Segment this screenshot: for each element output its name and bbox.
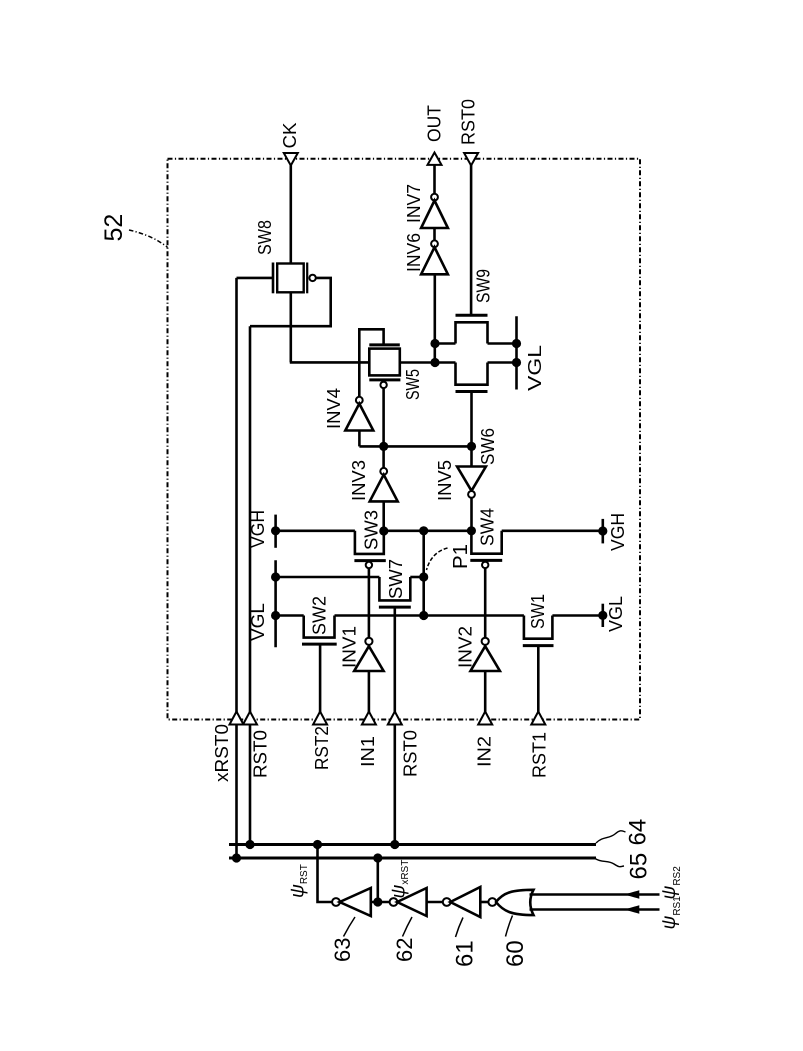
svg-text:VGL: VGL	[525, 345, 545, 391]
svg-text:RST0: RST0	[459, 99, 479, 145]
wire node1 left	[276, 529, 355, 532]
VGL rail right	[601, 604, 604, 627]
wire cross right arm bottom	[488, 361, 517, 364]
node dot cross right top	[512, 339, 521, 348]
node dot cross right bottom	[512, 358, 521, 367]
wire bus 65	[229, 857, 596, 860]
svg-text:52: 52	[100, 214, 128, 242]
nor gate 60	[488, 890, 533, 915]
arrowhead psiRS2	[624, 890, 639, 899]
svg-text:xRST0: xRST0	[212, 724, 232, 782]
svg-text:RST0: RST0	[401, 730, 421, 777]
wire bus 64	[229, 843, 596, 846]
terminal RST0 left	[243, 712, 257, 725]
inverter INV4	[324, 388, 373, 431]
svg-text:RST2: RST2	[312, 726, 332, 770]
leader 61	[456, 918, 464, 938]
wire cross left arm top	[435, 342, 456, 345]
wire CK	[289, 164, 292, 264]
svg-text:SW9: SW9	[474, 269, 494, 303]
node dot RST0-bus64	[245, 840, 254, 849]
node dot P1 top	[419, 526, 428, 535]
switch SW4	[470, 508, 502, 568]
wire RST0 vertical	[249, 326, 252, 844]
svg-text:CK: CK	[280, 123, 300, 149]
svg-text:INV6: INV6	[404, 233, 424, 272]
svg-text:61: 61	[452, 940, 479, 967]
inverter INV5	[435, 460, 486, 501]
leader 60	[506, 916, 513, 937]
wire INV7-INV6	[433, 228, 436, 240]
wire nor input psiRS1	[530, 908, 660, 911]
svg-text:SW8: SW8	[255, 220, 275, 255]
terminal xRST0	[230, 712, 244, 725]
svg-text:SW4: SW4	[478, 508, 498, 546]
wire SW2 gate stub	[319, 644, 322, 713]
terminal IN2	[478, 712, 492, 725]
switch SW8	[255, 220, 316, 293]
wire INV5 output	[470, 498, 473, 531]
svg-text:INV5: INV5	[435, 460, 455, 501]
node dot VGL-row line	[271, 611, 280, 620]
wire node1 mid	[384, 529, 472, 532]
node dot cross left bottom	[430, 358, 439, 367]
inverter 62	[390, 888, 427, 916]
svg-text:RST0: RST0	[251, 730, 271, 778]
terminal OUT	[428, 153, 442, 165]
wire SW7 gate to RST0	[393, 607, 396, 844]
svg-text:SW2: SW2	[310, 596, 330, 635]
svg-text:INV4: INV4	[324, 388, 344, 429]
inverter INV6	[404, 233, 448, 274]
wire SW5 output to cross	[400, 361, 456, 364]
node dot SW3-INV3	[379, 526, 388, 535]
svg-text:RST1: RST1	[530, 732, 550, 778]
svg-text:INV7: INV7	[404, 184, 424, 223]
svg-text:INV3: INV3	[349, 460, 369, 501]
svg-text:OUT: OUT	[425, 105, 445, 142]
inverter 61	[443, 887, 480, 917]
svg-text:VGL: VGL	[606, 596, 626, 632]
leader 64	[596, 831, 626, 843]
node dot psixRST-bus65	[373, 853, 382, 862]
node dot psixRST	[373, 897, 382, 906]
wire psiRST from bus64 to inverter 63	[318, 845, 333, 903]
VGL rail left	[274, 560, 277, 647]
wire SW5 bottom gate down to INV3 output	[382, 388, 385, 468]
arrowhead psiRS1	[624, 905, 639, 914]
node dot VGH right	[598, 526, 607, 535]
wire SW8 right gate to RST0 net	[250, 278, 331, 326]
wire INV5 input	[470, 446, 473, 466]
inverter INV3	[349, 460, 398, 501]
svg-text:SW6: SW6	[478, 428, 498, 465]
svg-text:60: 60	[502, 940, 529, 967]
terminal RST0 mid	[388, 712, 402, 725]
node dot INV3out-SW6	[467, 442, 476, 451]
terminal IN1	[362, 712, 376, 725]
svg-text:SW1: SW1	[528, 594, 548, 629]
VGL rail at cross	[515, 316, 518, 389]
switch SW6 body (cross lower)	[456, 363, 499, 466]
leader P1	[427, 548, 448, 570]
switch SW9 body (cross upper)	[456, 269, 494, 344]
svg-text:INV1: INV1	[340, 626, 360, 668]
node dot INV5-SW4	[467, 526, 476, 535]
wire SW7 to P1	[410, 576, 423, 579]
inverter INV2	[456, 626, 500, 671]
node dot psiRST-bus64	[313, 840, 322, 849]
svg-text:IN1: IN1	[358, 736, 378, 767]
wire cross right arm top	[488, 342, 517, 345]
wire INV2 input stub	[484, 671, 487, 713]
wire SW3 gate to INV1	[368, 568, 371, 638]
svg-text:VGH: VGH	[608, 513, 628, 551]
svg-text:P1: P1	[449, 544, 472, 569]
switch SW2	[302, 596, 337, 644]
svg-text:SW5: SW5	[403, 369, 423, 400]
dashed block border 52	[168, 159, 641, 720]
wire node1 right to VGH	[502, 529, 603, 532]
svg-text:SW7: SW7	[386, 559, 406, 599]
VGH rail right	[601, 519, 604, 544]
wire SW5 top gate hook to INV4 output	[359, 329, 383, 397]
VGH rail left	[274, 515, 277, 548]
wire psixRST to bus65	[376, 858, 379, 902]
svg-text:VGH: VGH	[248, 510, 268, 548]
wire INV1 input stub	[368, 671, 371, 713]
wire P1 vertical	[422, 531, 425, 616]
leader 65	[595, 859, 624, 867]
svg-text:62: 62	[392, 938, 417, 962]
terminal RST0 top	[464, 153, 478, 166]
wire row right to VGL	[552, 614, 602, 617]
wire OUT	[433, 164, 436, 194]
terminal RST2	[313, 712, 327, 725]
node dot RST0mid-bus64	[390, 840, 399, 849]
inverter INV1	[340, 626, 384, 671]
wire xRST0 vertical	[235, 278, 238, 858]
node dot VGL-SW7 line	[271, 572, 280, 581]
inverter 63	[332, 888, 371, 916]
node dot VGH left	[271, 526, 280, 535]
wire 61in-60out	[480, 901, 488, 904]
wire 62in-61out	[427, 901, 444, 904]
switch SW1	[523, 594, 554, 646]
leader 52	[129, 230, 168, 248]
node dot P1 bottom	[419, 611, 428, 620]
leader 62	[403, 917, 413, 937]
node dot cross left top	[430, 339, 439, 348]
terminal CK	[284, 153, 298, 166]
svg-text:63: 63	[330, 938, 355, 962]
svg-text:SW3: SW3	[362, 510, 382, 550]
terminal RST1	[531, 712, 545, 725]
wire SW8 output down	[289, 292, 292, 362]
wire nor input psiRS2	[530, 893, 660, 896]
svg-text:VGL: VGL	[248, 603, 268, 641]
wire SW8 left gate to xRST0 net	[237, 277, 275, 280]
svg-text:IN2: IN2	[475, 736, 495, 767]
wire VGL to SW7	[276, 576, 380, 579]
wire node INV3out line	[359, 445, 471, 448]
inverter INV7	[404, 184, 448, 228]
switch SW5	[369, 345, 423, 400]
wire SW6 gate stub	[470, 392, 473, 447]
leader 63	[344, 917, 356, 937]
wire SW1 gate stub	[537, 646, 540, 713]
node dot INV3out-SW5	[379, 442, 388, 451]
node dot xRST0-bus65	[232, 853, 241, 862]
svg-text:INV2: INV2	[456, 626, 476, 668]
wire INV4 input stub	[358, 431, 361, 447]
switch SW3	[354, 510, 385, 568]
svg-text:65: 65	[626, 853, 653, 880]
svg-text:64: 64	[625, 819, 652, 846]
wire 63in-62out	[371, 901, 390, 904]
wire RST0 to SW9 gate	[470, 164, 473, 315]
wire SW8 to SW5	[290, 361, 370, 364]
wire row mid	[335, 614, 524, 617]
node dot VGL right	[598, 611, 607, 620]
wire SW4 gate to INV2	[484, 568, 487, 638]
wire INV3 input stub	[382, 501, 385, 531]
wire VGL row left	[276, 614, 304, 617]
switch SW7	[379, 559, 411, 607]
node dot P1 mid	[419, 572, 428, 581]
wire INV6 input down to node	[433, 274, 436, 362]
